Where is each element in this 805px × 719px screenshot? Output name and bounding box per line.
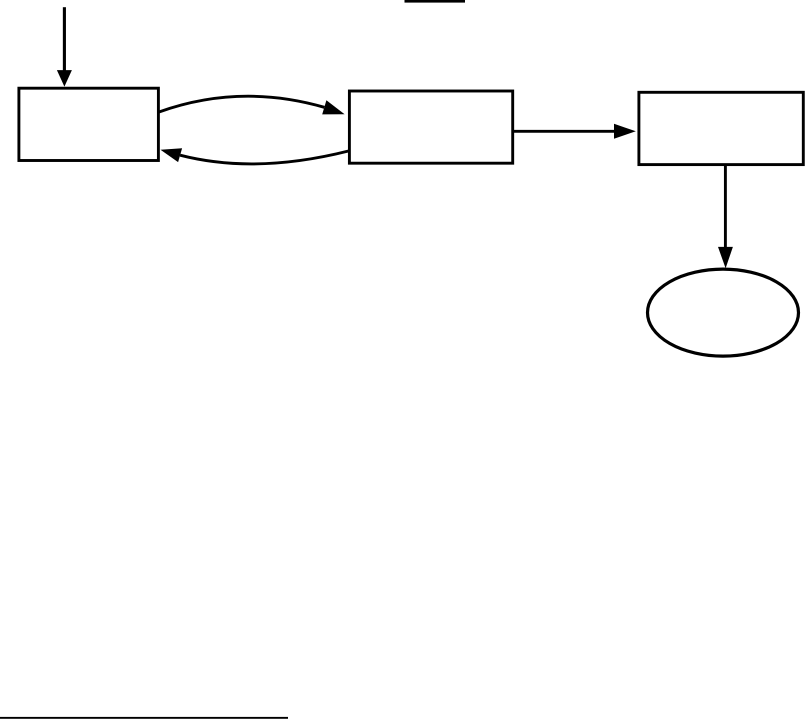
terminal ellipse: [648, 269, 799, 356]
footnote separator line (bottom-left): [0, 717, 288, 719]
wire: entry arrow shaft into box 1: [63, 7, 66, 71]
arrowhead into box 1: [161, 148, 183, 162]
entry arrowhead: [57, 70, 72, 87]
box 3 (process rectangle, right): [639, 92, 803, 164]
wire: straight arrow box2 to box3: [514, 130, 615, 133]
box 1 (process rectangle, top-left): [19, 88, 159, 160]
arrowhead into box 2: [322, 100, 344, 114]
wire: curved arrow box2 to box1 (lower arc): [180, 151, 348, 164]
box 2 (process rectangle, middle): [349, 91, 512, 163]
wire: curved arrow box1 to box2 (upper arc): [159, 96, 324, 112]
arrowhead into ellipse: [718, 247, 733, 268]
wire: arrow box3 down to ellipse: [724, 165, 727, 248]
title underline bar (cropped at top): [405, 0, 466, 3]
arrowhead into box 3: [614, 124, 636, 139]
